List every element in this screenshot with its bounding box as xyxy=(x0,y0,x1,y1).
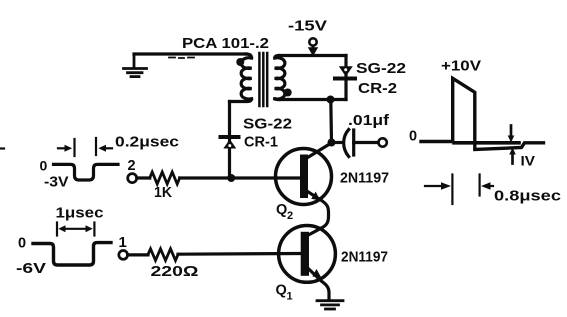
dimension arrows 0.2usec xyxy=(58,138,112,156)
waveform: input 2 pulse xyxy=(54,164,119,180)
node: capacitor junction xyxy=(328,139,336,147)
wire: CR-1 vertical from transformer primary bottom xyxy=(228,102,231,178)
wire: CR-2 vertical xyxy=(344,56,347,100)
svg-text:220Ω: 220Ω xyxy=(151,263,199,280)
svg-text:0: 0 xyxy=(18,236,26,252)
svg-text:0.8μsec: 0.8μsec xyxy=(494,189,561,205)
svg-text:SG-22: SG-22 xyxy=(243,116,292,133)
dashed zero line xyxy=(454,141,519,145)
ground (primary) xyxy=(124,54,147,77)
svg-text:0: 0 xyxy=(40,158,48,174)
svg-text:1K: 1K xyxy=(154,184,172,201)
node: collector junction on secondary bottom xyxy=(327,96,335,104)
svg-text:CR-1: CR-1 xyxy=(244,134,278,151)
waveform: input 1 pulse xyxy=(33,243,111,265)
capacitor C1 .01uf xyxy=(332,130,387,157)
svg-text:-3V: -3V xyxy=(44,175,69,191)
wire: junction down to capacitor node xyxy=(329,100,333,143)
svg-text:Q: Q xyxy=(276,283,287,299)
svg-text:1: 1 xyxy=(119,234,127,251)
svg-text:2N1197: 2N1197 xyxy=(340,170,389,187)
transistor Q1 xyxy=(279,226,336,300)
svg-text:2: 2 xyxy=(128,158,136,174)
wire: transformer secondary bottom xyxy=(279,98,346,101)
diode CR-2 xyxy=(333,66,357,78)
arrow 1V up xyxy=(511,154,514,164)
wire: ground to transformer primary top xyxy=(134,52,246,55)
node: Q2 base junction xyxy=(227,174,235,182)
input terminal 2 xyxy=(128,174,137,183)
svg-text:+10V: +10V xyxy=(441,58,481,75)
resistor R2 220ohm xyxy=(128,249,300,261)
transistor Q2 xyxy=(276,143,332,229)
svg-text:-15V: -15V xyxy=(288,18,327,35)
svg-text:Q: Q xyxy=(276,202,287,218)
transformer T1 PCA 101-.2 xyxy=(230,53,292,106)
scan artifact dashes xyxy=(169,57,194,60)
svg-text:1μsec: 1μsec xyxy=(56,206,104,222)
diode CR-1 xyxy=(219,137,241,149)
svg-text:-6V: -6V xyxy=(16,260,46,277)
wire: transformer secondary top to CR-2 branch xyxy=(279,54,346,57)
svg-text:2N1197: 2N1197 xyxy=(341,249,388,266)
input terminal 1 xyxy=(119,251,128,260)
dimension arrows 1usec xyxy=(57,223,94,236)
ground (Q1 emitter) xyxy=(317,301,343,309)
svg-text:0: 0 xyxy=(409,129,417,145)
svg-text:SG-22: SG-22 xyxy=(356,60,406,77)
waveform: output pulse xyxy=(421,78,544,149)
scan speck left edge xyxy=(0,147,4,149)
svg-text:IV: IV xyxy=(521,153,536,169)
svg-text:PCA 101-.2: PCA 101-.2 xyxy=(182,35,269,52)
arrow 1V down xyxy=(510,126,513,137)
svg-text:.01μf: .01μf xyxy=(348,112,390,129)
dimension arrows 0.8usec xyxy=(425,175,493,205)
svg-text:0.2μsec: 0.2μsec xyxy=(115,135,179,151)
resistor R1 1K xyxy=(137,172,300,184)
svg-text:1: 1 xyxy=(287,291,293,303)
svg-text:CR-2: CR-2 xyxy=(358,80,397,97)
svg-text:2: 2 xyxy=(287,210,293,222)
